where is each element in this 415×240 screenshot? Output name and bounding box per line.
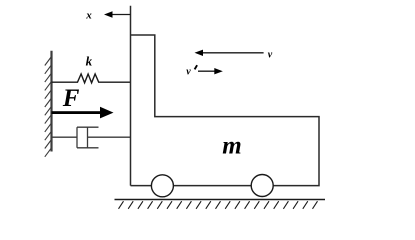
spring k: [52, 74, 131, 83]
svg-text:x: x: [85, 9, 92, 21]
v arrow: [195, 50, 264, 56]
x arrow: [104, 11, 131, 17]
svg-text:F: F: [62, 85, 80, 112]
wall: [45, 51, 52, 157]
v' arrow: [198, 68, 223, 74]
svg-text:m: m: [222, 133, 241, 160]
svg-text:k: k: [86, 53, 93, 68]
wheel left: [151, 175, 173, 197]
ground: [115, 200, 326, 209]
svg-text:v: v: [186, 66, 191, 77]
svg-text:v: v: [268, 49, 273, 60]
mass body outline (L-shape): [131, 6, 320, 186]
damper: [52, 127, 131, 148]
wheel right: [251, 175, 273, 197]
force F arrow: [52, 107, 114, 119]
